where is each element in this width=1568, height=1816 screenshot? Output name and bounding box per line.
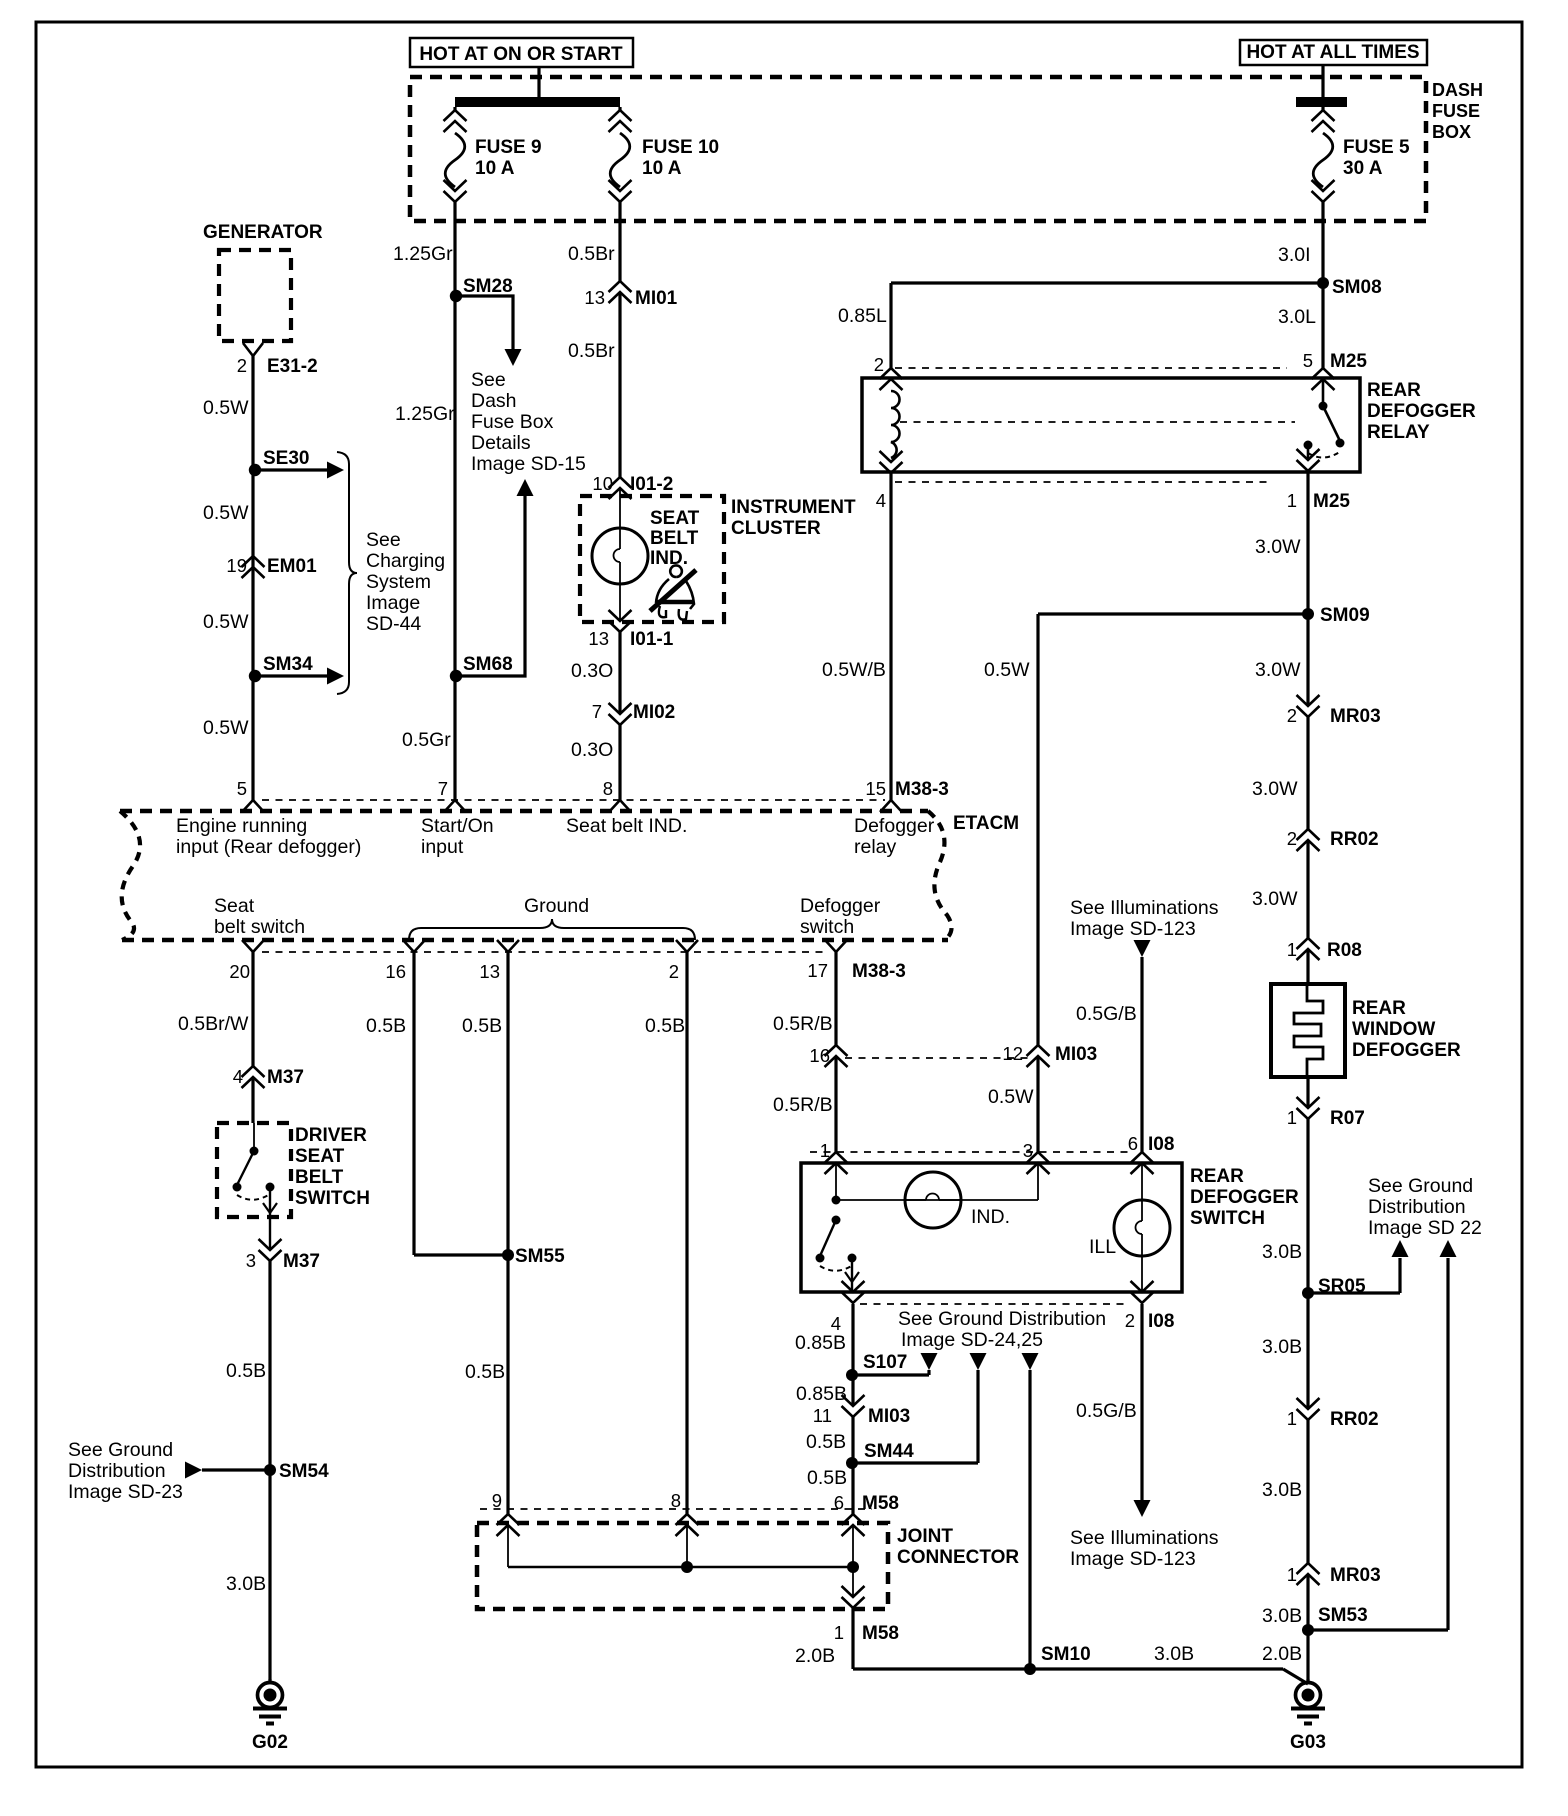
svg-text:G03: G03 xyxy=(1290,1732,1326,1753)
svg-text:M38-3: M38-3 xyxy=(852,961,906,982)
svg-text:0.5W: 0.5W xyxy=(203,611,249,633)
svg-text:input (Rear defogger): input (Rear defogger) xyxy=(176,836,361,858)
svg-text:M58: M58 xyxy=(862,1493,899,1514)
svg-text:10 A: 10 A xyxy=(475,158,515,179)
svg-text:20: 20 xyxy=(229,961,250,982)
svg-text:G02: G02 xyxy=(252,1732,288,1753)
svg-text:E31-2: E31-2 xyxy=(267,356,318,377)
svg-text:6: 6 xyxy=(834,1492,844,1513)
svg-text:15: 15 xyxy=(865,778,886,799)
svg-text:10 A: 10 A xyxy=(642,158,682,179)
svg-text:0.5B: 0.5B xyxy=(465,1361,505,1383)
svg-text:S107: S107 xyxy=(863,1352,907,1373)
svg-text:Image SD-15: Image SD-15 xyxy=(471,453,586,475)
svg-text:I08: I08 xyxy=(1148,1134,1174,1155)
svg-text:3.0B: 3.0B xyxy=(1154,1643,1194,1665)
svg-text:5: 5 xyxy=(1303,350,1313,371)
svg-text:0.5B: 0.5B xyxy=(807,1467,847,1489)
svg-text:SEAT: SEAT xyxy=(650,508,700,529)
svg-text:1: 1 xyxy=(834,1622,844,1643)
svg-text:SM44: SM44 xyxy=(864,1441,914,1462)
svg-text:0.5W: 0.5W xyxy=(203,717,249,739)
svg-text:3: 3 xyxy=(246,1250,256,1271)
svg-text:BOX: BOX xyxy=(1432,122,1471,142)
svg-text:M58: M58 xyxy=(862,1623,899,1644)
svg-text:Engine running: Engine running xyxy=(176,815,307,837)
svg-text:Details: Details xyxy=(471,432,531,454)
svg-text:RR02: RR02 xyxy=(1330,829,1379,850)
svg-text:3.0W: 3.0W xyxy=(1255,659,1301,681)
svg-text:See: See xyxy=(471,369,506,391)
svg-text:ILL: ILL xyxy=(1089,1236,1116,1258)
svg-text:SM10: SM10 xyxy=(1041,1644,1091,1665)
svg-text:SM09: SM09 xyxy=(1320,605,1370,626)
svg-text:7: 7 xyxy=(438,778,448,799)
svg-text:REAR: REAR xyxy=(1352,998,1406,1019)
svg-text:MR03: MR03 xyxy=(1330,706,1381,727)
svg-text:Image: Image xyxy=(366,592,420,614)
svg-text:3.0B: 3.0B xyxy=(1262,1479,1302,1501)
svg-text:1.25Gr: 1.25Gr xyxy=(393,243,453,265)
svg-text:SWITCH: SWITCH xyxy=(295,1188,370,1209)
svg-text:4: 4 xyxy=(233,1066,243,1087)
svg-text:FUSE: FUSE xyxy=(1432,101,1480,121)
svg-text:See Ground Distribution: See Ground Distribution xyxy=(898,1308,1106,1330)
svg-text:I08: I08 xyxy=(1148,1311,1174,1332)
svg-text:19: 19 xyxy=(226,555,247,576)
svg-text:16: 16 xyxy=(809,1045,830,1066)
svg-text:See Illuminations: See Illuminations xyxy=(1070,897,1219,919)
svg-text:Image SD-24,25: Image SD-24,25 xyxy=(901,1329,1043,1351)
svg-text:3.0B: 3.0B xyxy=(1262,1336,1302,1358)
svg-text:0.5B: 0.5B xyxy=(806,1431,846,1453)
svg-text:7: 7 xyxy=(592,701,602,722)
svg-text:0.5Br: 0.5Br xyxy=(568,243,615,265)
svg-text:0.5G/B: 0.5G/B xyxy=(1076,1003,1137,1025)
svg-text:2: 2 xyxy=(1125,1310,1135,1331)
svg-text:13: 13 xyxy=(584,287,605,308)
svg-text:RELAY: RELAY xyxy=(1367,422,1430,443)
svg-text:R07: R07 xyxy=(1330,1108,1365,1129)
svg-text:Defogger: Defogger xyxy=(800,895,881,917)
svg-text:SE30: SE30 xyxy=(263,448,309,469)
svg-text:SM08: SM08 xyxy=(1332,277,1382,298)
svg-text:MI01: MI01 xyxy=(635,288,678,309)
svg-text:See Ground: See Ground xyxy=(1368,1175,1473,1197)
svg-text:30 A: 30 A xyxy=(1343,158,1383,179)
svg-text:0.85B: 0.85B xyxy=(795,1332,846,1354)
svg-text:Image SD-123: Image SD-123 xyxy=(1070,918,1196,940)
svg-text:Defogger: Defogger xyxy=(854,815,935,837)
svg-text:M25: M25 xyxy=(1313,491,1350,512)
svg-text:DEFOGGER: DEFOGGER xyxy=(1367,401,1476,422)
svg-text:Ground: Ground xyxy=(524,895,589,917)
svg-text:Charging: Charging xyxy=(366,550,445,572)
svg-text:HOT AT ON OR START: HOT AT ON OR START xyxy=(419,44,623,65)
svg-text:SM55: SM55 xyxy=(515,1246,565,1267)
svg-text:REAR: REAR xyxy=(1190,1166,1244,1187)
svg-text:REAR: REAR xyxy=(1367,380,1421,401)
svg-text:5: 5 xyxy=(237,778,247,799)
svg-text:M25: M25 xyxy=(1330,351,1367,372)
svg-text:13: 13 xyxy=(588,628,609,649)
svg-text:2: 2 xyxy=(237,355,247,376)
svg-text:1: 1 xyxy=(1287,490,1297,511)
svg-text:IND.: IND. xyxy=(971,1206,1010,1228)
svg-text:0.5W: 0.5W xyxy=(203,397,249,419)
svg-text:2.0B: 2.0B xyxy=(1262,1643,1302,1665)
svg-text:Start/On: Start/On xyxy=(421,815,494,837)
svg-text:Image SD-23: Image SD-23 xyxy=(68,1481,183,1503)
svg-text:9: 9 xyxy=(492,1490,502,1511)
svg-text:0.5R/B: 0.5R/B xyxy=(773,1013,833,1035)
svg-text:1: 1 xyxy=(1287,1564,1297,1585)
svg-text:relay: relay xyxy=(854,836,897,858)
svg-text:GENERATOR: GENERATOR xyxy=(203,222,323,243)
svg-text:MR03: MR03 xyxy=(1330,1565,1381,1586)
svg-text:SM53: SM53 xyxy=(1318,1605,1368,1626)
svg-text:0.5B: 0.5B xyxy=(226,1360,266,1382)
svg-text:SM28: SM28 xyxy=(463,276,513,297)
svg-text:3.0I: 3.0I xyxy=(1278,244,1311,266)
svg-text:3.0B: 3.0B xyxy=(226,1573,266,1595)
svg-text:3.0W: 3.0W xyxy=(1252,778,1298,800)
svg-text:SM54: SM54 xyxy=(279,1461,329,1482)
svg-text:2: 2 xyxy=(669,961,679,982)
svg-text:SEAT: SEAT xyxy=(295,1146,345,1167)
svg-text:0.5W: 0.5W xyxy=(988,1086,1034,1108)
svg-text:4: 4 xyxy=(831,1313,841,1334)
svg-text:FUSE 5: FUSE 5 xyxy=(1343,137,1410,158)
svg-text:0.5R/B: 0.5R/B xyxy=(773,1094,833,1116)
svg-text:0.5B: 0.5B xyxy=(366,1015,406,1037)
svg-text:Distribution: Distribution xyxy=(1368,1196,1466,1218)
svg-text:0.5Gr: 0.5Gr xyxy=(402,729,451,751)
svg-text:3.0W: 3.0W xyxy=(1255,536,1301,558)
svg-text:FUSE 9: FUSE 9 xyxy=(475,137,542,158)
svg-text:11: 11 xyxy=(813,1405,832,1426)
svg-text:MI03: MI03 xyxy=(1055,1044,1097,1065)
svg-text:0.3O: 0.3O xyxy=(571,739,613,761)
svg-text:MI02: MI02 xyxy=(633,702,675,723)
svg-text:0.5Br: 0.5Br xyxy=(568,340,615,362)
svg-text:6: 6 xyxy=(1128,1133,1138,1154)
svg-text:4: 4 xyxy=(876,490,886,511)
svg-text:Dash: Dash xyxy=(471,390,517,412)
svg-text:M37: M37 xyxy=(267,1067,304,1088)
svg-text:17: 17 xyxy=(807,960,828,981)
svg-text:0.3O: 0.3O xyxy=(571,660,613,682)
svg-text:0.5W: 0.5W xyxy=(203,502,249,524)
svg-text:Image SD-123: Image SD-123 xyxy=(1070,1548,1196,1570)
svg-text:HOT AT ALL TIMES: HOT AT ALL TIMES xyxy=(1246,42,1419,63)
svg-text:1: 1 xyxy=(1287,1408,1297,1429)
svg-text:Seat: Seat xyxy=(214,895,255,917)
svg-text:Fuse Box: Fuse Box xyxy=(471,411,554,433)
svg-text:0.5Br/W: 0.5Br/W xyxy=(178,1013,249,1035)
svg-text:1: 1 xyxy=(1287,939,1297,960)
svg-text:0.5W: 0.5W xyxy=(984,659,1030,681)
svg-text:DASH: DASH xyxy=(1432,80,1483,100)
svg-text:0.5G/B: 0.5G/B xyxy=(1076,1400,1137,1422)
svg-text:R08: R08 xyxy=(1327,940,1362,961)
svg-text:2: 2 xyxy=(1287,705,1297,726)
svg-text:8: 8 xyxy=(671,1490,681,1511)
svg-text:WINDOW: WINDOW xyxy=(1352,1019,1435,1040)
svg-text:0.85B: 0.85B xyxy=(796,1383,847,1405)
svg-text:M37: M37 xyxy=(283,1251,320,1272)
svg-text:belt switch: belt switch xyxy=(214,916,305,938)
svg-text:See Ground: See Ground xyxy=(68,1439,173,1461)
svg-text:1.25Gr: 1.25Gr xyxy=(395,403,455,425)
svg-text:MI03: MI03 xyxy=(868,1406,910,1427)
svg-text:IND.: IND. xyxy=(650,548,688,569)
svg-text:ETACM: ETACM xyxy=(953,813,1019,834)
svg-text:10: 10 xyxy=(592,473,613,494)
svg-text:2.0B: 2.0B xyxy=(795,1645,835,1667)
svg-text:1: 1 xyxy=(1287,1107,1297,1128)
svg-text:See Illuminations: See Illuminations xyxy=(1070,1527,1219,1549)
svg-text:Distribution: Distribution xyxy=(68,1460,166,1482)
svg-text:I01-2: I01-2 xyxy=(630,474,673,495)
svg-text:Seat belt IND.: Seat belt IND. xyxy=(566,815,687,837)
svg-text:13: 13 xyxy=(479,961,500,982)
svg-text:SM68: SM68 xyxy=(463,654,513,675)
svg-text:input: input xyxy=(421,836,464,858)
svg-text:0.5B: 0.5B xyxy=(645,1015,685,1037)
svg-text:DEFOGGER: DEFOGGER xyxy=(1352,1040,1461,1061)
svg-text:2: 2 xyxy=(1287,828,1297,849)
svg-text:INSTRUMENT: INSTRUMENT xyxy=(731,497,856,518)
svg-text:3.0B: 3.0B xyxy=(1262,1241,1302,1263)
svg-text:I01-1: I01-1 xyxy=(630,629,674,650)
svg-text:CLUSTER: CLUSTER xyxy=(731,518,821,539)
svg-text:8: 8 xyxy=(603,778,613,799)
svg-text:BELT: BELT xyxy=(650,528,699,549)
svg-text:SWITCH: SWITCH xyxy=(1190,1208,1265,1229)
svg-text:RR02: RR02 xyxy=(1330,1409,1379,1430)
svg-text:2: 2 xyxy=(874,354,884,375)
svg-text:switch: switch xyxy=(800,916,854,938)
svg-text:SD-44: SD-44 xyxy=(366,613,421,635)
svg-text:JOINT: JOINT xyxy=(897,1526,953,1547)
svg-text:0.5W/B: 0.5W/B xyxy=(822,659,886,681)
svg-text:3.0W: 3.0W xyxy=(1252,888,1298,910)
svg-text:DRIVER: DRIVER xyxy=(295,1125,367,1146)
svg-text:M38-3: M38-3 xyxy=(895,779,949,800)
svg-text:Image SD 22: Image SD 22 xyxy=(1368,1217,1482,1239)
svg-text:12: 12 xyxy=(1002,1043,1023,1064)
svg-text:SM34: SM34 xyxy=(263,654,313,675)
svg-text:16: 16 xyxy=(385,961,406,982)
svg-text:0.85L: 0.85L xyxy=(838,305,887,327)
svg-text:FUSE 10: FUSE 10 xyxy=(642,137,719,158)
svg-text:EM01: EM01 xyxy=(267,556,317,577)
svg-text:3.0B: 3.0B xyxy=(1262,1605,1302,1627)
svg-text:0.5B: 0.5B xyxy=(462,1015,502,1037)
svg-text:3.0L: 3.0L xyxy=(1278,306,1316,328)
svg-text:CONNECTOR: CONNECTOR xyxy=(897,1547,1019,1568)
svg-text:BELT: BELT xyxy=(295,1167,344,1188)
svg-text:System: System xyxy=(366,571,431,593)
svg-text:See: See xyxy=(366,529,401,551)
svg-text:DEFOGGER: DEFOGGER xyxy=(1190,1187,1299,1208)
